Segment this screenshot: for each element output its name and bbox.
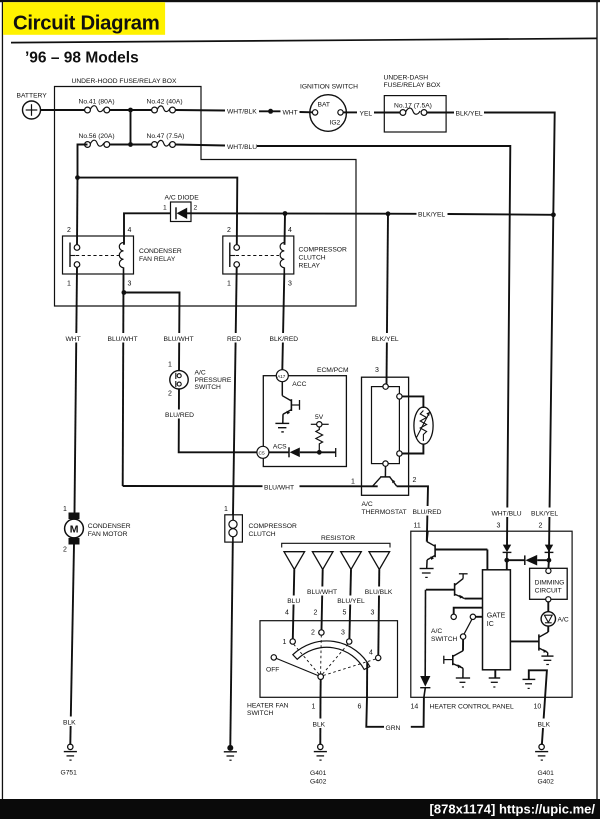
svg-text:RED: RED bbox=[227, 336, 241, 343]
svg-text:3: 3 bbox=[341, 630, 345, 637]
svg-text:BLU/WHT: BLU/WHT bbox=[108, 336, 138, 343]
svg-text:A17: A17 bbox=[277, 374, 286, 379]
svg-text:6: 6 bbox=[358, 704, 362, 711]
wire gate IC bottom to ground bbox=[494, 670, 496, 678]
junction dot compressor coil branch bbox=[283, 211, 288, 216]
wire fuse17 to BLK/YEL bbox=[427, 112, 454, 114]
fuse No.17 (7.5A) bbox=[400, 108, 427, 115]
svg-text:SWITCH: SWITCH bbox=[195, 384, 222, 391]
heater fan switch position 4 terminal bbox=[376, 655, 381, 660]
fuse No.56 (20A) bbox=[85, 140, 110, 147]
svg-text:CONDENSER: CONDENSER bbox=[88, 523, 131, 530]
ground G401/G402 left bbox=[314, 744, 327, 760]
wire panel internal ground to pin 10 bbox=[529, 670, 547, 744]
junction dot dimming feed bbox=[547, 558, 552, 563]
a/c switch contact a bbox=[451, 614, 456, 619]
thermostat switch bbox=[373, 466, 397, 486]
wire pin 6 GRN to heater panel pin 14 bbox=[366, 697, 384, 727]
svg-text:RELAY: RELAY bbox=[299, 263, 321, 270]
wire relay feed to compressor clutch relay pin 2 bbox=[78, 178, 238, 245]
title highlight bbox=[3, 2, 165, 35]
svg-text:BLU/WHT: BLU/WHT bbox=[264, 485, 294, 492]
wire label BLK bbox=[311, 719, 331, 729]
svg-text:WHT/BLK: WHT/BLK bbox=[227, 109, 257, 116]
svg-text:4: 4 bbox=[369, 650, 373, 657]
svg-text:SWITCH: SWITCH bbox=[431, 636, 458, 643]
transistor Q2 panel top-left bbox=[427, 531, 488, 568]
wire label BLU/WHT col1 bbox=[107, 333, 144, 343]
svg-text:G401: G401 bbox=[310, 770, 327, 777]
resistor bracket bbox=[282, 543, 390, 547]
rotary wiper arc bbox=[293, 641, 370, 670]
svg-text:CIRCUIT: CIRCUIT bbox=[535, 588, 562, 595]
transistor Q4 a/c switch lower bbox=[444, 651, 463, 678]
ground G751 bbox=[64, 744, 77, 760]
svg-text:BLK/YEL: BLK/YEL bbox=[531, 511, 558, 518]
bottom watermark bar bbox=[0, 799, 600, 819]
svg-text:ACS: ACS bbox=[273, 444, 287, 451]
svg-text:5: 5 bbox=[343, 610, 347, 617]
wire label BLU/WHT lower rail bbox=[263, 482, 300, 492]
svg-text:BLK: BLK bbox=[63, 720, 76, 727]
wire label RED bbox=[226, 333, 246, 343]
fuse No.42 (40A) bbox=[152, 106, 176, 113]
wire contact b to gate IC bbox=[476, 616, 483, 618]
5V supply terminal bbox=[311, 422, 329, 427]
svg-text:BLU/RED: BLU/RED bbox=[413, 509, 442, 516]
wire compressor clutch to ground bbox=[230, 542, 233, 745]
resistor terminal funnel 4 bbox=[369, 552, 390, 570]
dashed ray to 3 bbox=[323, 644, 348, 674]
wire label WHT bbox=[65, 333, 85, 343]
svg-text:IC: IC bbox=[487, 621, 494, 628]
ground under Q2 bbox=[420, 569, 434, 578]
wire pressure switch to C5 BLU/RED bbox=[179, 389, 257, 452]
wire label BLU/BLK bbox=[364, 587, 396, 597]
svg-text:WHT: WHT bbox=[283, 110, 298, 117]
wire ACS to internal stub bbox=[300, 451, 336, 453]
svg-text:3: 3 bbox=[497, 523, 501, 530]
svg-text:3: 3 bbox=[375, 367, 379, 374]
svg-text:A/C DIODE: A/C DIODE bbox=[165, 195, 200, 202]
svg-text:No.47 (7.5A): No.47 (7.5A) bbox=[147, 133, 185, 140]
wire thermostat pin 2 BLU/RED down to heater panel pin 11 bbox=[397, 486, 428, 541]
svg-text:[878x1174] https://upic.me/: [878x1174] https://upic.me/ bbox=[430, 802, 596, 817]
svg-text:GATE: GATE bbox=[487, 613, 506, 620]
svg-text:HEATER CONTROL PANEL: HEATER CONTROL PANEL bbox=[430, 704, 515, 711]
wire a/c switch feed from gate IC bbox=[454, 608, 483, 614]
wire motor to ground G751 bbox=[70, 545, 74, 745]
svg-text:1: 1 bbox=[227, 281, 231, 288]
svg-text:FAN MOTOR: FAN MOTOR bbox=[88, 531, 128, 538]
svg-text:IG2: IG2 bbox=[330, 120, 341, 127]
svg-text:2: 2 bbox=[314, 610, 318, 617]
wire pivot to pin 1 bbox=[320, 680, 322, 698]
title rule bbox=[11, 38, 597, 42]
svg-text:DIMMING: DIMMING bbox=[535, 580, 565, 587]
svg-text:10: 10 bbox=[534, 704, 542, 711]
svg-text:1: 1 bbox=[168, 362, 172, 369]
wire fuse56 left leg down to relay feed junction bbox=[78, 145, 88, 178]
svg-text:’96 – 98 Models: ’96 – 98 Models bbox=[25, 50, 139, 67]
svg-text:BLU/BLK: BLU/BLK bbox=[365, 589, 393, 596]
svg-text:WHT/BLU: WHT/BLU bbox=[492, 511, 522, 518]
wire BLU/WHT lower rail to thermostat pin 1 bbox=[123, 485, 378, 487]
svg-text:No.41 (80A): No.41 (80A) bbox=[79, 99, 115, 106]
junction dot bbox=[128, 142, 133, 147]
dashed ray to 2 bbox=[320, 635, 323, 674]
junction dot thermostat branch bbox=[386, 211, 391, 216]
gate IC box bbox=[483, 570, 511, 670]
thermistor capsule bbox=[414, 407, 433, 444]
ground under Q4 bbox=[456, 678, 470, 687]
svg-text:UNDER-HOOD FUSE/RELAY BOX: UNDER-HOOD FUSE/RELAY BOX bbox=[72, 78, 177, 85]
wire battery to fuse No.41 bbox=[41, 109, 85, 111]
a/c switch pivot contact bbox=[460, 634, 465, 639]
ignition switch bbox=[310, 95, 347, 132]
svg-text:CONDENSER: CONDENSER bbox=[139, 248, 182, 255]
wire thermostat sensor loop bbox=[402, 396, 423, 408]
page right border bbox=[596, 0, 597, 800]
svg-text:WHT/BLU: WHT/BLU bbox=[227, 144, 257, 151]
resistor terminal funnel 2 bbox=[312, 552, 333, 570]
wire branch to A/C pressure switch bbox=[124, 293, 180, 372]
svg-text:BLK/YEL: BLK/YEL bbox=[418, 212, 445, 219]
wire relay feed down to condenser fan relay pin 2 bbox=[76, 178, 79, 245]
svg-text:4: 4 bbox=[285, 610, 289, 617]
heater fan switch box bbox=[260, 621, 398, 698]
diode D4 pin 2 input bbox=[545, 545, 554, 561]
ground G401/G402 right bbox=[535, 744, 548, 760]
svg-text:14: 14 bbox=[411, 704, 419, 711]
ground under gate IC bbox=[489, 678, 501, 687]
svg-text:11: 11 bbox=[414, 523, 421, 530]
svg-text:ECM/PCM: ECM/PCM bbox=[317, 367, 349, 374]
svg-text:COMPRESSOR: COMPRESSOR bbox=[299, 247, 347, 254]
terminal A17 bbox=[276, 370, 288, 382]
wire condenser relay pin 4 to BLK/YEL rail bbox=[124, 213, 171, 245]
svg-text:A/C: A/C bbox=[195, 370, 206, 377]
wire ignition to YEL bbox=[343, 111, 357, 113]
under-dash fuse/relay box bbox=[384, 96, 446, 132]
battery bbox=[23, 101, 41, 119]
wire label BLK right bbox=[533, 719, 553, 729]
svg-text:2: 2 bbox=[539, 523, 543, 530]
wire label BLU/WHT col2 bbox=[163, 333, 200, 343]
svg-text:1: 1 bbox=[163, 205, 167, 212]
svg-text:WHT: WHT bbox=[66, 336, 81, 343]
wire fuse56 row bbox=[110, 144, 152, 146]
junction dot resistor to ACS bbox=[317, 450, 322, 455]
wire BLU/YEL to heater fan switch bbox=[349, 570, 351, 639]
resistor terminal funnel 1 bbox=[284, 552, 305, 570]
page left border bbox=[2, 0, 3, 800]
wire fuse47 to WHT/BLU bbox=[175, 145, 225, 146]
svg-text:HEATER FAN: HEATER FAN bbox=[247, 703, 289, 710]
svg-text:COMPRESSOR: COMPRESSOR bbox=[249, 523, 297, 530]
svg-text:BLK/RED: BLK/RED bbox=[270, 336, 299, 343]
svg-text:No.56 (20A): No.56 (20A) bbox=[79, 133, 115, 140]
svg-text:1: 1 bbox=[63, 506, 67, 513]
ground in ECM bbox=[275, 423, 289, 432]
svg-text:4: 4 bbox=[128, 227, 132, 234]
heater fan switch position 3 terminal bbox=[347, 639, 352, 644]
wire dimming to LED bbox=[547, 602, 549, 612]
LED A/C indicator bbox=[541, 612, 555, 626]
svg-text:IGNITION SWITCH: IGNITION SWITCH bbox=[300, 84, 358, 91]
wire BLK/YEL to right column bbox=[484, 113, 555, 561]
fuse No.41 (80A) bbox=[85, 106, 110, 113]
ground below compressor clutch bbox=[224, 745, 237, 760]
wire WHT/BLK to WHT bbox=[259, 110, 281, 112]
page top border bbox=[0, 0, 600, 2]
svg-text:UNDER-DASH: UNDER-DASH bbox=[384, 75, 429, 82]
svg-text:2: 2 bbox=[194, 205, 198, 212]
resistor R1 5V pull-up bbox=[316, 427, 323, 452]
svg-text:BLK: BLK bbox=[538, 722, 551, 729]
condenser fan motor M bbox=[65, 513, 84, 545]
transistor Q5 lamp driver bbox=[510, 632, 548, 656]
diode D5 between rails bbox=[507, 555, 549, 566]
wire Q2 base to gate IC bbox=[486, 550, 488, 570]
wire label BLU/RED bbox=[164, 410, 194, 420]
dimming circuit terminal top bbox=[546, 568, 551, 573]
wire BLK/YEL rail to junction at right column bbox=[448, 213, 554, 216]
junction dot BLU/WHT branch bbox=[122, 290, 127, 295]
wire fuse42 to WHT/BLK bbox=[175, 109, 225, 112]
wiper pivot bbox=[318, 674, 324, 680]
svg-text:CLUTCH: CLUTCH bbox=[249, 531, 276, 538]
svg-text:3: 3 bbox=[128, 281, 132, 288]
svg-text:2: 2 bbox=[63, 547, 67, 554]
svg-text:RESISTOR: RESISTOR bbox=[321, 535, 355, 542]
diode D3 pin 3 input bbox=[503, 545, 512, 561]
svg-text:SWITCH: SWITCH bbox=[247, 710, 274, 717]
wiper lever to OFF bbox=[276, 658, 318, 675]
wire WHT/BLU to right and down to heater panel pin 3 bbox=[257, 146, 510, 546]
ACS internal stub bar bbox=[335, 448, 337, 457]
svg-text:BLU/RED: BLU/RED bbox=[165, 412, 194, 419]
svg-text:A/C: A/C bbox=[558, 617, 569, 624]
svg-text:A/C: A/C bbox=[362, 501, 373, 508]
svg-text:2: 2 bbox=[168, 391, 172, 398]
svg-text:THERMOSTAT: THERMOSTAT bbox=[362, 509, 407, 516]
svg-text:G401: G401 bbox=[538, 770, 555, 777]
svg-text:CLUTCH: CLUTCH bbox=[299, 255, 326, 262]
svg-text:1: 1 bbox=[283, 639, 287, 646]
terminal C5 bbox=[257, 446, 269, 458]
A/C pressure switch bbox=[170, 371, 188, 389]
junction dot right column bbox=[551, 212, 556, 217]
svg-text:1: 1 bbox=[224, 506, 228, 513]
svg-text:C5: C5 bbox=[259, 451, 265, 457]
wire label BLU bbox=[286, 596, 302, 606]
wire label BLU/WHT bbox=[306, 587, 339, 597]
svg-text:No.17 (7.5A): No.17 (7.5A) bbox=[394, 103, 432, 110]
wire label BLK/YEL bbox=[417, 209, 448, 219]
wire arc to pin 6 bbox=[366, 662, 368, 697]
dimming circuit terminal bottom bbox=[546, 597, 551, 602]
svg-text:2: 2 bbox=[227, 227, 231, 234]
heater fan switch position 1 terminal bbox=[290, 639, 295, 644]
svg-text:5V: 5V bbox=[315, 414, 324, 421]
svg-text:FAN RELAY: FAN RELAY bbox=[139, 256, 176, 263]
svg-text:No.42 (40A): No.42 (40A) bbox=[147, 99, 183, 106]
wire pin 1 BLK to ground bbox=[319, 697, 321, 744]
diode D6 pin 14 output bbox=[420, 590, 430, 698]
wire label BLU/YEL bbox=[336, 596, 367, 606]
wire fuse41 junction down to fuse56 row bbox=[130, 110, 132, 145]
svg-text:A/C: A/C bbox=[431, 628, 442, 635]
svg-text:1: 1 bbox=[312, 704, 316, 711]
wire BLU/WHT to heater fan switch bbox=[322, 570, 323, 630]
svg-text:BAT: BAT bbox=[318, 102, 331, 109]
wire GRN to panel pin 14 bbox=[411, 697, 424, 727]
svg-text:3: 3 bbox=[288, 281, 292, 288]
wire YEL to under-dash box bbox=[374, 112, 400, 114]
wire label BLU/RED panel col bbox=[412, 506, 443, 516]
svg-text:2: 2 bbox=[311, 630, 315, 637]
wire BLU/BLK to heater fan switch bbox=[378, 570, 379, 656]
junction dot bbox=[128, 108, 133, 113]
svg-text:PRESSURE: PRESSURE bbox=[195, 377, 232, 384]
wire gate feed down bbox=[506, 560, 508, 570]
condenser fan relay bbox=[63, 236, 134, 274]
diode D2 on ACS line bbox=[269, 447, 300, 457]
svg-text:BLU/WHT: BLU/WHT bbox=[307, 589, 337, 596]
svg-text:GRN: GRN bbox=[386, 725, 401, 732]
compressor clutch coil bbox=[225, 515, 243, 542]
transistor Q3 a/c switch upper bbox=[426, 574, 468, 599]
ECM/PCM box bbox=[263, 376, 346, 467]
wire dimming feed down bbox=[547, 560, 550, 568]
svg-text:BLK/YEL: BLK/YEL bbox=[456, 111, 483, 118]
heater fan switch position 2 terminal bbox=[319, 630, 324, 635]
wire label BLK/YEL panel col bbox=[530, 508, 562, 518]
wire compressor relay pin 3 BLK/RED column to ECM A17 bbox=[282, 274, 284, 370]
dashed ray to 1 bbox=[294, 644, 319, 674]
resistor terminal funnel 3 bbox=[341, 552, 362, 570]
svg-text:M: M bbox=[70, 523, 79, 535]
wire BLK/YEL down to A/C thermostat pin 3 bbox=[387, 214, 389, 384]
wire fuse41 to fuse42 bbox=[110, 109, 152, 111]
svg-text:BLK/YEL: BLK/YEL bbox=[372, 336, 399, 343]
wire Q3 emitter to gate IC bbox=[465, 598, 483, 600]
splice dot bbox=[268, 109, 273, 114]
wire label WHT/BLU panel col bbox=[491, 508, 523, 518]
svg-text:1: 1 bbox=[351, 479, 355, 486]
svg-text:1: 1 bbox=[67, 281, 71, 288]
A/C diode D1 bbox=[171, 202, 192, 222]
wire WHT to ignition switch bbox=[300, 111, 313, 113]
wire condenser relay pin 3 BLU/WHT column bbox=[122, 274, 125, 486]
junction dot bbox=[75, 175, 80, 180]
ground panel internal bbox=[523, 679, 536, 688]
svg-text:BLU: BLU bbox=[287, 598, 300, 605]
transistor Q1 in ECM bbox=[282, 382, 299, 424]
heater control panel box bbox=[411, 531, 572, 697]
svg-text:G402: G402 bbox=[538, 779, 555, 786]
thermostat terminal circles bbox=[383, 384, 388, 389]
fuse No.47 (7.5A) bbox=[152, 140, 176, 147]
svg-text:Circuit Diagram: Circuit Diagram bbox=[13, 13, 160, 35]
svg-text:3: 3 bbox=[371, 610, 375, 617]
svg-text:BLU/WHT: BLU/WHT bbox=[164, 336, 194, 343]
heater fan switch OFF terminal bbox=[271, 655, 276, 660]
svg-text:ACC: ACC bbox=[292, 381, 306, 388]
wire compressor relay pin 1 RED column to compressor clutch bbox=[233, 267, 237, 515]
compressor clutch relay bbox=[223, 236, 294, 274]
svg-text:2: 2 bbox=[67, 227, 71, 234]
a/c switch lever bbox=[464, 619, 472, 634]
junction dot gate feed bbox=[504, 558, 509, 563]
wire label BLK/YEL thermostat col bbox=[371, 333, 406, 343]
wire BLU to heater fan switch bbox=[293, 570, 295, 639]
svg-text:4: 4 bbox=[288, 227, 292, 234]
svg-text:FUSE/RELAY BOX: FUSE/RELAY BOX bbox=[384, 82, 442, 89]
svg-text:BLK: BLK bbox=[313, 722, 326, 729]
svg-text:G402: G402 bbox=[310, 779, 327, 786]
wire BLK/YEL rail diode to thermostat and right column bbox=[191, 212, 417, 215]
under-hood fuse/relay box bbox=[55, 87, 357, 307]
wire condenser relay pin 1 WHT column to fan motor bbox=[75, 267, 78, 512]
wire label BLK/RED bbox=[269, 333, 304, 343]
a/c switch contact b bbox=[470, 614, 475, 619]
A/C thermostat outer box bbox=[362, 377, 409, 495]
svg-text:BLU/YEL: BLU/YEL bbox=[337, 598, 365, 605]
svg-text:OFF: OFF bbox=[266, 667, 279, 674]
wire LED to transistor Q5 bbox=[547, 626, 549, 632]
dashed ray to 4 bbox=[323, 659, 375, 676]
svg-text:BATTERY: BATTERY bbox=[17, 93, 48, 100]
svg-text:2: 2 bbox=[413, 477, 417, 484]
thermostat inner box bbox=[372, 387, 400, 464]
svg-text:YEL: YEL bbox=[360, 111, 373, 118]
wire to compressor clutch relay pin 4 bbox=[284, 214, 287, 245]
wire pivot down to Q4 collector bbox=[462, 639, 464, 651]
ground under Q5 bbox=[541, 656, 553, 664]
wire label BLK left bbox=[62, 717, 82, 727]
svg-text:G751: G751 bbox=[61, 770, 78, 777]
dimming circuit box bbox=[530, 568, 568, 599]
